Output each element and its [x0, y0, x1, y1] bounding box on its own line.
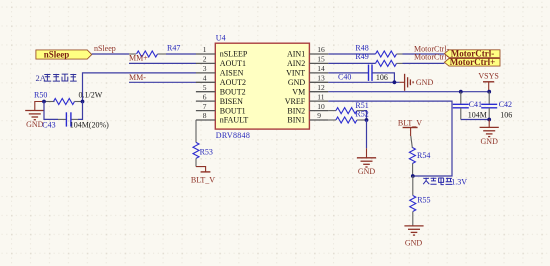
svg-text:C43: C43 [42, 120, 55, 129]
svg-text:VINT: VINT [286, 69, 305, 78]
junction C42 bottom [487, 118, 491, 122]
svg-text:8: 8 [203, 111, 207, 120]
resistor R54 [409, 148, 430, 177]
power port BLT_V bottom [191, 167, 215, 185]
svg-text:104M: 104M [468, 110, 487, 119]
wire C41 bottom to C42 bottom [461, 119, 489, 121]
svg-text:7: 7 [203, 102, 207, 111]
wire R47 to pin1 [166, 53, 196, 55]
svg-text:GND: GND [288, 78, 306, 87]
svg-text:BISEN: BISEN [220, 97, 243, 106]
resistor R55 [410, 176, 431, 226]
wire pin13 GND net [328, 81, 399, 83]
resistor R50 [34, 90, 103, 104]
capacitor C41 [453, 92, 487, 120]
svg-text:VREF: VREF [285, 97, 306, 106]
svg-text:14: 14 [317, 64, 325, 73]
svg-text:R47: R47 [167, 43, 180, 52]
svg-text:C42: C42 [499, 100, 512, 109]
junction R54/R55/VREF [411, 174, 415, 178]
svg-text:MM-: MM- [129, 73, 146, 82]
svg-text:AOUT1: AOUT1 [220, 59, 246, 68]
U4 pin 1 nSLEEP [196, 45, 248, 59]
text annotation 2A overcurrent protection [36, 73, 77, 83]
U4 pin 12 VM [292, 83, 328, 97]
svg-text:12: 12 [317, 83, 325, 92]
svg-text:U4: U4 [216, 34, 226, 43]
svg-text:nSleep: nSleep [44, 50, 70, 60]
svg-text:VM: VM [292, 87, 305, 96]
svg-text:R52: R52 [355, 110, 368, 119]
svg-text:BIN1: BIN1 [287, 116, 305, 125]
wire pin8 to R53 [195, 120, 197, 142]
svg-text:6: 6 [203, 92, 207, 101]
svg-text:104M(20%): 104M(20%) [70, 120, 109, 129]
U4 pin 7 BOUT1 [196, 102, 246, 116]
wire VM net (pin12) [328, 91, 489, 93]
U4 pin 5 BOUT2 [196, 83, 246, 97]
U4 pin 14 VINT [286, 64, 328, 78]
svg-text:AIN2: AIN2 [287, 59, 305, 68]
power port BLT_V top [398, 118, 422, 147]
resistor R52 [328, 110, 368, 123]
ground GND below C42 [480, 120, 499, 147]
svg-text:AISEN: AISEN [220, 69, 244, 78]
resistor R51 [328, 101, 368, 114]
svg-text:11: 11 [317, 92, 324, 101]
U4 pin 8 nFAULT [196, 111, 248, 125]
svg-text:10: 10 [317, 102, 325, 111]
resistor R53 [193, 142, 213, 166]
ground GND left [25, 102, 44, 130]
IC U4 DRV8848 [215, 34, 309, 140]
U4 pin 9 BIN1 [287, 111, 328, 125]
svg-text:R55: R55 [417, 196, 430, 205]
junction VM/VSYS/C42 [487, 90, 491, 94]
wire MM+ (pin 2) [129, 62, 196, 64]
svg-text:106: 106 [500, 110, 512, 119]
node A junction [42, 100, 46, 104]
svg-text:R50: R50 [34, 90, 47, 99]
svg-text:4: 4 [203, 74, 207, 83]
svg-text:GND: GND [26, 120, 44, 129]
wire VREF net (pin11) [328, 101, 452, 176]
svg-text:BLT_V: BLT_V [398, 118, 422, 127]
wire pin3 AISEN net [83, 73, 197, 102]
U4 pin 10 BIN2 [287, 102, 328, 116]
svg-text:DRV8848: DRV8848 [216, 131, 250, 140]
svg-text:0.1/2W: 0.1/2W [79, 91, 103, 100]
svg-text:R54: R54 [417, 151, 430, 160]
node B junction [81, 100, 85, 104]
wire node A down to C43 [44, 102, 58, 120]
svg-text:GND: GND [405, 238, 423, 247]
wire junction down to GND [366, 120, 368, 148]
svg-text:5: 5 [203, 83, 207, 92]
svg-text:3: 3 [203, 64, 207, 73]
svg-text:13: 13 [317, 74, 325, 83]
capacitor C43 [42, 112, 109, 129]
svg-text:AOUT2: AOUT2 [220, 78, 246, 87]
U4 pin 6 BISEN [196, 92, 243, 106]
svg-text:GND: GND [416, 78, 434, 87]
port nSleep [36, 50, 92, 60]
svg-text:MotorCtrl+: MotorCtrl+ [450, 57, 496, 67]
ground GND rotated right [400, 74, 434, 91]
svg-text:AIN1: AIN1 [287, 50, 305, 59]
U4 pin 3 AISEN [196, 64, 244, 78]
U4 pin 2 AOUT1 [196, 55, 246, 69]
junction C40/GND [393, 80, 397, 84]
svg-text:MM+: MM+ [129, 54, 148, 63]
svg-text:R53: R53 [200, 148, 213, 157]
U4 pin 4 AOUT2 [196, 74, 246, 88]
port MotorCtrl+ [444, 57, 500, 67]
junction VM/C41 [459, 90, 463, 94]
svg-text:9: 9 [317, 111, 321, 120]
svg-text:GND: GND [481, 137, 499, 146]
svg-text:16: 16 [317, 45, 325, 54]
svg-text:VSYS: VSYS [478, 72, 498, 81]
svg-text:106: 106 [376, 73, 388, 82]
port MotorCtrl- [444, 49, 500, 59]
capacitor C40 [328, 65, 388, 82]
svg-text:nSleep: nSleep [94, 44, 116, 53]
svg-text:15: 15 [317, 55, 325, 64]
wire nSleep [92, 53, 129, 55]
svg-text:GND: GND [358, 167, 376, 176]
svg-text:C40: C40 [338, 72, 351, 81]
text annotation reference voltage 1.3V [423, 177, 467, 186]
svg-text:nFAULT: nFAULT [220, 116, 249, 125]
junction R51/R52 [365, 118, 369, 122]
svg-text:2: 2 [203, 55, 207, 64]
svg-text:R49: R49 [355, 52, 368, 61]
wire R49 to port MotorCtrl+ [403, 62, 445, 64]
power port VSYS [478, 72, 498, 92]
wire C40 to GND net [372, 73, 394, 82]
ground GND below R51/R52 [357, 148, 376, 176]
resistor R47 [129, 43, 180, 57]
wire R48 to port MotorCtrl- [403, 53, 445, 55]
svg-text:nSLEEP: nSLEEP [220, 50, 248, 59]
resistor R49 [328, 52, 402, 67]
svg-text:BLT_V: BLT_V [191, 176, 215, 185]
wire MM- (pin 4) [129, 81, 196, 83]
svg-text:BOUT1: BOUT1 [220, 106, 246, 115]
resistor R48 [328, 44, 402, 57]
U4 pin 16 AIN1 [287, 45, 328, 59]
ground GND bottom [404, 226, 423, 247]
wire R51 to junction [364, 111, 367, 120]
U4 pin 15 AIN2 [287, 55, 328, 69]
U4 pin 11 VREF [285, 92, 329, 106]
wire node B down to C43 [78, 102, 83, 120]
svg-text:C41: C41 [469, 100, 482, 109]
capacitor C42 [481, 92, 512, 120]
svg-text:BIN2: BIN2 [287, 106, 305, 115]
svg-text:BOUT2: BOUT2 [220, 87, 246, 96]
svg-text:1: 1 [203, 45, 207, 54]
svg-text:1.3V: 1.3V [451, 177, 467, 186]
U4 pin 13 GND [288, 74, 328, 88]
